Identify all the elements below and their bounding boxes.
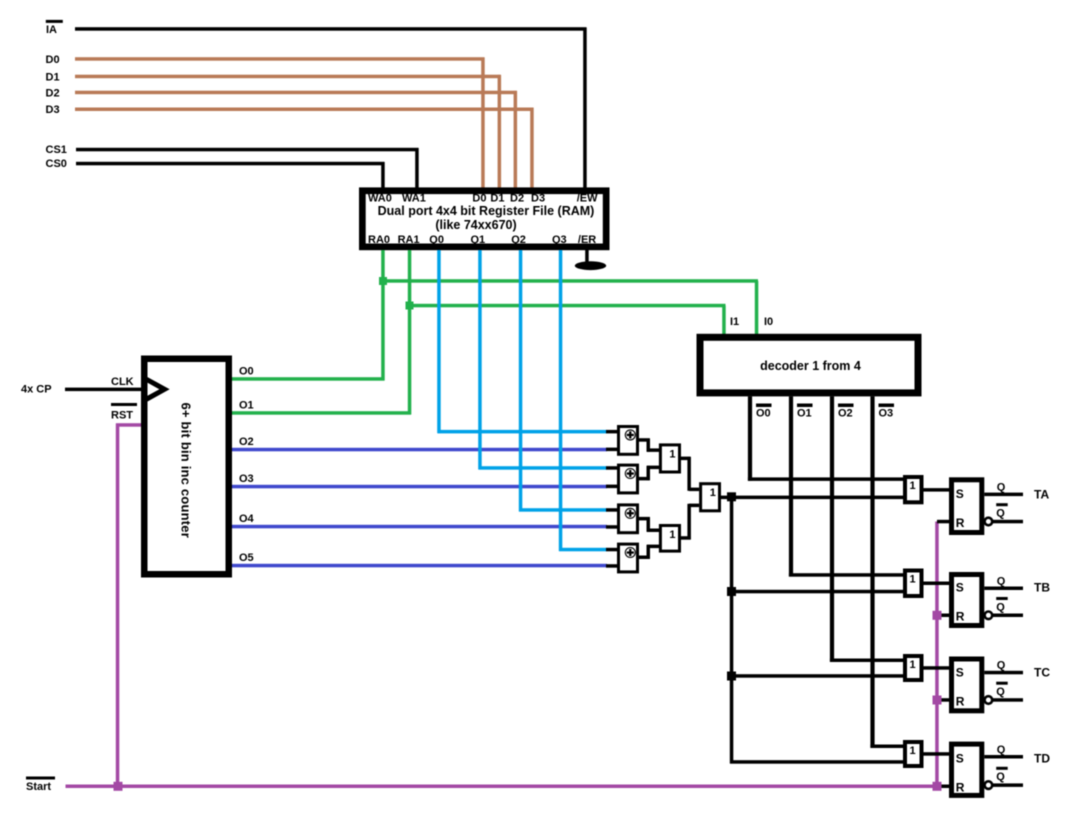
svg-text:S: S	[956, 751, 964, 765]
svg-text:I1: I1	[730, 316, 739, 328]
svg-text:CLK: CLK	[111, 376, 134, 388]
svg-text:TC: TC	[1034, 666, 1050, 680]
svg-text:R: R	[956, 781, 965, 795]
svg-text:decoder 1 from 4: decoder 1 from 4	[760, 359, 861, 373]
svg-text:TA: TA	[1034, 487, 1049, 501]
svg-text:O3: O3	[879, 408, 894, 420]
svg-text:Dual port 4x4 bit Register Fil: Dual port 4x4 bit Register File (RAM)	[378, 204, 595, 218]
svg-text:R: R	[956, 516, 965, 530]
svg-text:1: 1	[910, 574, 916, 586]
svg-text:/EW: /EW	[577, 193, 598, 205]
svg-text:D0: D0	[472, 193, 486, 205]
svg-text:D0: D0	[46, 54, 60, 66]
svg-text:O0: O0	[239, 365, 254, 377]
svg-text:TD: TD	[1034, 752, 1050, 766]
svg-text:CS0: CS0	[46, 158, 67, 170]
svg-text:Q: Q	[996, 508, 1005, 520]
svg-text:O3: O3	[239, 473, 254, 485]
svg-text:Q2: Q2	[511, 234, 526, 246]
svg-text:Q: Q	[996, 601, 1005, 613]
svg-text:(like 74xx670): (like 74xx670)	[435, 218, 516, 232]
svg-text:Q: Q	[997, 575, 1006, 587]
svg-text:Q: Q	[997, 660, 1006, 672]
svg-text:WA0: WA0	[368, 193, 392, 205]
svg-text:6+ bit bin inc counter: 6+ bit bin inc counter	[178, 403, 193, 539]
svg-text:D2: D2	[510, 193, 524, 205]
svg-text:RA1: RA1	[398, 234, 420, 246]
svg-text:Q3: Q3	[552, 234, 567, 246]
svg-text:S: S	[956, 665, 964, 679]
svg-text:1: 1	[669, 448, 675, 460]
svg-text:Start: Start	[26, 781, 51, 793]
svg-text:O4: O4	[239, 513, 255, 525]
svg-text:S: S	[956, 487, 964, 501]
svg-text:1: 1	[910, 659, 916, 671]
svg-text:D3: D3	[46, 104, 60, 116]
svg-text:O1: O1	[239, 399, 254, 411]
svg-text:D1: D1	[46, 71, 60, 83]
svg-text:1: 1	[710, 487, 716, 499]
svg-text:IA: IA	[46, 24, 57, 36]
svg-text:O5: O5	[239, 552, 254, 564]
svg-text:D2: D2	[46, 87, 60, 99]
svg-text:O0: O0	[756, 408, 771, 420]
svg-text:1: 1	[910, 480, 916, 492]
svg-text:D1: D1	[490, 193, 504, 205]
svg-text:Q: Q	[997, 744, 1006, 756]
svg-text:S: S	[956, 581, 964, 595]
svg-text:R: R	[956, 610, 965, 624]
svg-text:TB: TB	[1034, 581, 1050, 595]
svg-text:1: 1	[669, 529, 675, 541]
svg-text:WA1: WA1	[402, 193, 426, 205]
svg-text:O2: O2	[838, 408, 853, 420]
svg-text:R: R	[956, 694, 965, 708]
svg-text:I0: I0	[764, 316, 773, 328]
svg-text:CS1: CS1	[46, 144, 67, 156]
svg-text:O1: O1	[797, 408, 812, 420]
svg-text:1: 1	[910, 745, 916, 757]
svg-text:Q1: Q1	[471, 234, 486, 246]
svg-text:RST: RST	[111, 410, 133, 422]
svg-text:Q0: Q0	[429, 234, 444, 246]
svg-text:Q: Q	[997, 481, 1006, 493]
svg-text:O2: O2	[239, 436, 254, 448]
svg-text:4x CP: 4x CP	[21, 384, 52, 396]
svg-text:Q: Q	[996, 686, 1005, 698]
svg-text:RA0: RA0	[368, 234, 390, 246]
svg-text:Q: Q	[996, 771, 1005, 783]
svg-text:/ER: /ER	[578, 234, 596, 246]
svg-text:D3: D3	[531, 193, 545, 205]
